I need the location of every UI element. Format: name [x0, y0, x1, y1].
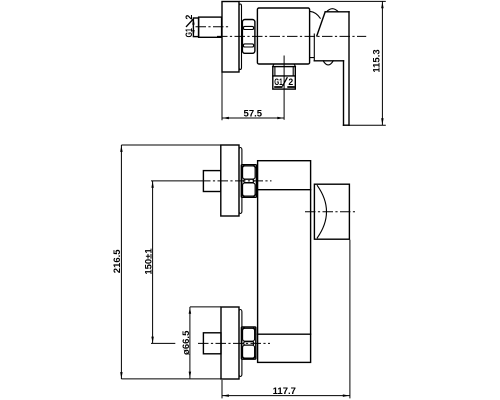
handle base bottom edge [314, 60, 343, 62]
G1/2 label slash [186, 19, 193, 27]
dim ø66.5 top extension [190, 306, 221, 308]
dim 117.7 right extension [349, 240, 351, 399]
outlet collar [273, 64, 296, 66]
dim 150±1 line [152, 181, 154, 343]
lower hex nut (front view) [241, 327, 255, 359]
handle top edge [325, 11, 349, 13]
dim ø66.5 line [189, 307, 191, 378]
handle slanted front edge [317, 12, 325, 36]
svg-text:57.5: 57.5 [244, 109, 263, 120]
lower nut chamfers [242, 327, 256, 359]
svg-text:G1: G1 [274, 77, 282, 87]
plate rim lip [239, 4, 242, 70]
dim 115.3 bottom extension [349, 124, 386, 126]
svg-text:150±1: 150±1 [144, 248, 155, 275]
lower centerline [198, 342, 270, 344]
lower wall connector [203, 333, 221, 354]
mixer body (front view) [258, 161, 311, 363]
lower nut middle band [244, 342, 254, 345]
lower nut facet bottom box [243, 345, 255, 358]
upper wall connector [203, 171, 220, 192]
outlet divider [273, 75, 296, 77]
outlet inner thread walls [275, 67, 293, 76]
upper centerline [200, 180, 272, 182]
body top cap line [258, 189, 311, 191]
lever left edge [343, 61, 345, 125]
handle top dome bump [327, 9, 339, 12]
svg-text:117.7: 117.7 [273, 386, 296, 397]
handle centerline [305, 211, 355, 213]
dim 216.5 top extension [121, 144, 220, 146]
lever right edge [348, 12, 350, 125]
svg-text:ø66.5: ø66.5 [181, 330, 192, 355]
upper centerline extension [151, 180, 200, 182]
outlet centerline [283, 56, 285, 120]
dim 117.7 arrows [222, 394, 229, 397]
upper hex nut (front view) [241, 165, 256, 198]
valve body (side view) [257, 8, 309, 64]
inlet pipe [199, 17, 222, 37]
G1/2 slash [282, 77, 287, 86]
hex nut (side view) [242, 20, 255, 54]
base bottom notch [323, 61, 333, 65]
body bottom cap line [258, 333, 311, 335]
svg-text:2: 2 [184, 15, 194, 20]
dim 216.5 arrows [120, 145, 123, 152]
svg-text:G1: G1 [184, 28, 194, 37]
upper nut facet bottom box [243, 183, 256, 196]
dim 216.5 line [120, 145, 122, 379]
outlet socket [273, 67, 296, 90]
svg-text:115.3: 115.3 [372, 49, 383, 72]
dim 216.5 bottom extension [121, 378, 221, 380]
lower plate rim lip [239, 310, 242, 377]
dim 115.3 line [381, 1, 383, 125]
wall escutcheon plate (side view) [222, 2, 239, 73]
outlet thread bars [274, 86, 295, 88]
nut facet bottom [243, 44, 253, 47]
dim 115.3 top extension [239, 0, 386, 2]
dim 117.7 line [222, 395, 350, 397]
dim 57.5 line [222, 117, 284, 119]
dim 117.7 left extension [221, 380, 223, 398]
upper escutcheon plate [221, 145, 239, 216]
handle base lower edge [310, 34, 315, 61]
nut facet top [243, 26, 253, 29]
G1/2 thread dimension arrows [192, 18, 195, 25]
handle knob arc [317, 186, 326, 238]
dim ø66.5 arrows [189, 307, 192, 314]
pipe centerline [196, 26, 229, 28]
lower nut facet top box [243, 328, 255, 341]
dim 150±1 arrows [151, 181, 154, 188]
upper plate rim lip [239, 148, 242, 214]
cartridge cap dome arc [310, 11, 320, 18]
svg-text:216.5: 216.5 [112, 249, 123, 273]
upper nut facet top box [243, 166, 256, 179]
svg-text:2: 2 [288, 77, 293, 87]
upper nut middle band [244, 179, 254, 182]
dim 57.5 arrows [222, 117, 229, 120]
body centerline [217, 35, 366, 37]
dim 57.5 extension left [221, 73, 223, 121]
lower escutcheon plate [221, 307, 239, 379]
pipe thread G1/2 [193, 18, 198, 37]
upper nut chamfers [242, 165, 256, 197]
handle knob (front view) [314, 184, 349, 239]
dim 115.3 arrows [381, 2, 384, 9]
lower centerline extension [151, 342, 175, 344]
lever bottom edge [344, 124, 350, 126]
